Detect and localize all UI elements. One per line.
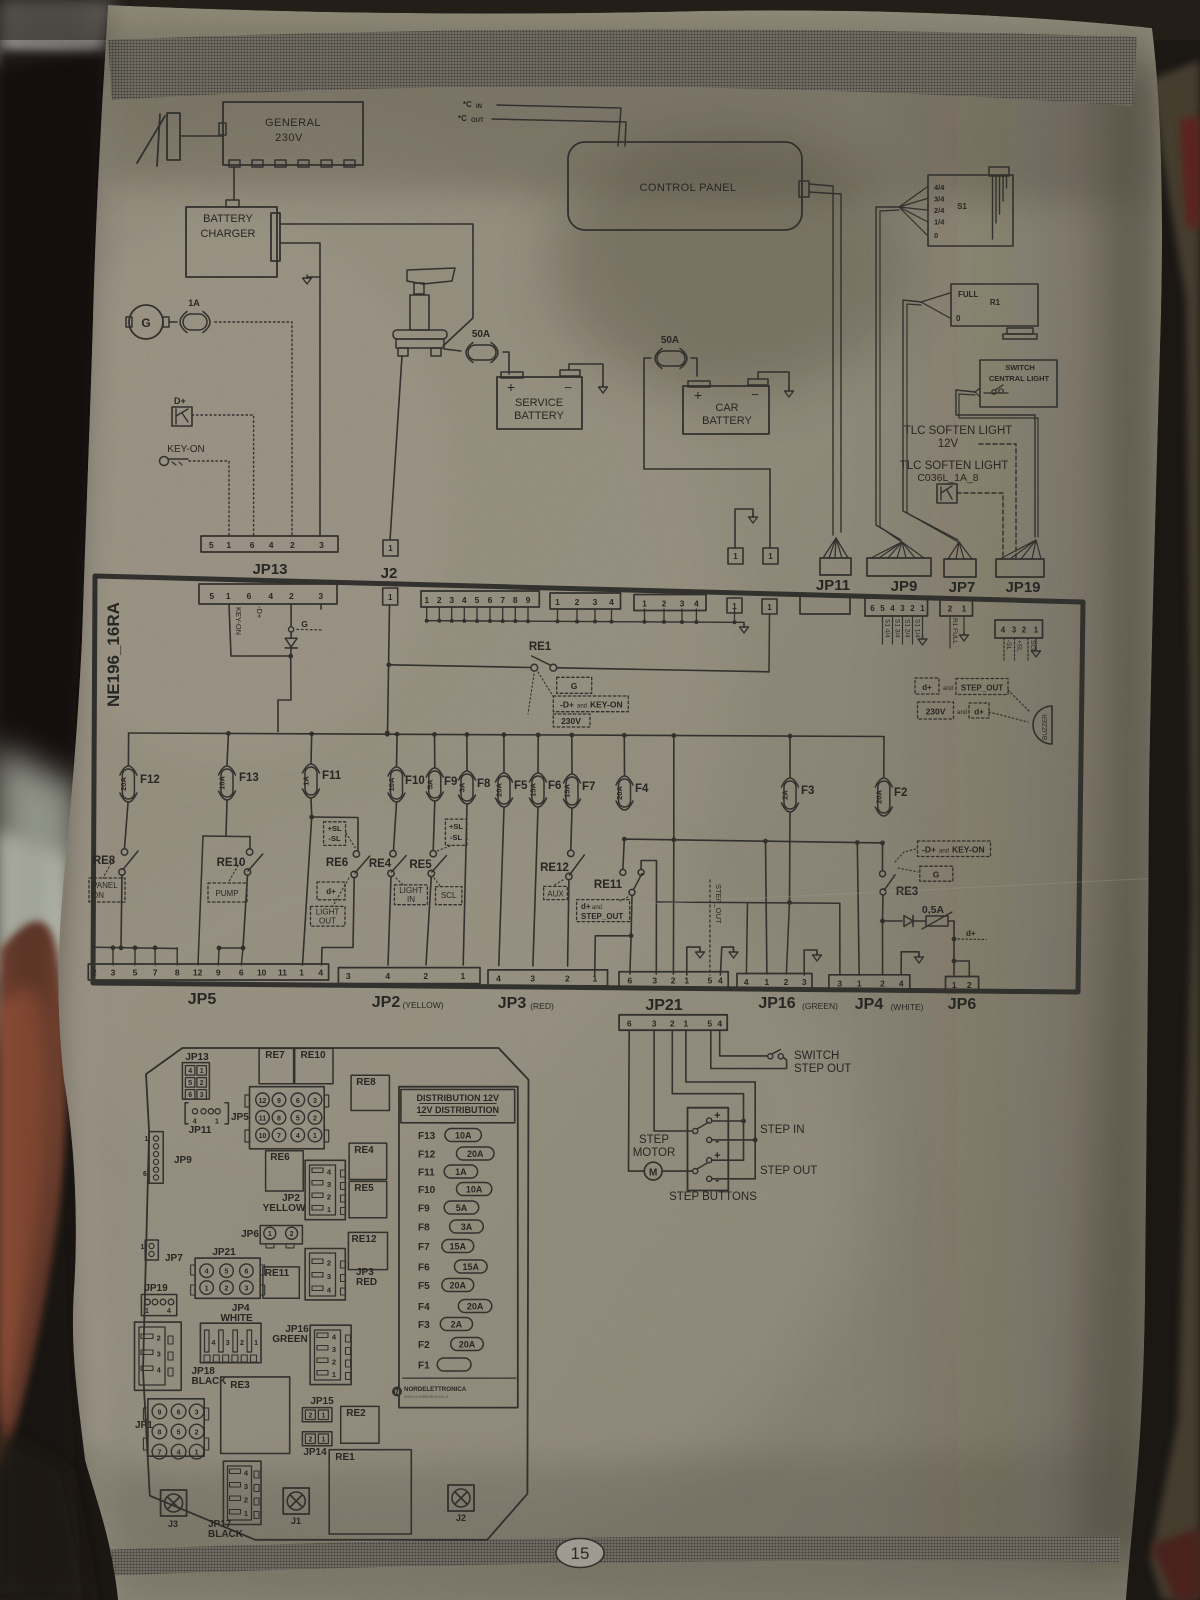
JP5 pin row bottom <box>88 964 328 980</box>
d+ and STEP_OUT dashed labels buzzer <box>915 678 939 694</box>
bus R1 to JP7 <box>903 300 958 540</box>
RE1 wire J2 to J1 <box>389 665 531 668</box>
JP2 pin row bottom <box>338 968 480 984</box>
dark zone top strip <box>110 30 1150 205</box>
JP5 pin bus left <box>94 947 177 948</box>
JP11 connector box <box>820 558 851 575</box>
RE5 output to JP2 pin 2 <box>426 877 431 965</box>
dashed 230V box at RE1 <box>553 714 590 727</box>
dashed +SL -SL box at RE5 <box>445 819 466 845</box>
PCB RE6 <box>266 1151 304 1191</box>
relay RE4 light in <box>394 803 397 850</box>
fan switch central light <box>975 388 980 392</box>
ground car battery <box>758 372 789 390</box>
bus junction dots <box>226 731 231 736</box>
dashed SCL box at RE5 <box>436 887 462 905</box>
PCB JP5 connector <box>250 1087 325 1149</box>
JP19 connector box <box>996 559 1044 577</box>
dotted wire D+ to JP13 pin6 <box>192 415 254 536</box>
dotted wire 1A fuse to JP13 pin2 <box>215 322 292 536</box>
dashed +SL -SL box at RE6 <box>324 822 346 846</box>
F5 wire to JP3 pin 4 <box>499 808 504 966</box>
diode on JP13 pin2 line <box>285 638 297 647</box>
switch central light <box>980 360 1057 407</box>
relay RE11 <box>623 839 624 869</box>
relay RE6 light out <box>310 799 313 815</box>
PCB RE11 <box>263 1267 299 1298</box>
fuse F4 20A <box>623 735 625 775</box>
fan into JP19 <box>1000 540 1036 559</box>
wire JP21-6 to motor <box>629 1030 645 1171</box>
JP6 pin row bottom <box>946 977 979 993</box>
JP13 pin3 stub <box>320 604 322 609</box>
battery charger <box>186 207 277 277</box>
buttons contacts <box>707 1118 712 1123</box>
dashed d+ and STEP_OUT box at RE11 <box>577 900 630 922</box>
relay RE10 pump <box>226 801 227 836</box>
diode to 0,5A <box>883 920 903 922</box>
hand thumb <box>0 921 67 1470</box>
fuse 50A car <box>657 351 685 366</box>
fuse F8 3A <box>466 735 468 770</box>
JP4 pin row bottom <box>829 975 910 991</box>
wire JP16 pin1 from F4 bus <box>766 841 767 974</box>
JP19 pin box inside board <box>995 620 1043 638</box>
fuse F10 10A <box>396 734 399 766</box>
ground JP21 pin4 <box>720 947 733 975</box>
fuse F12 20A <box>127 733 129 765</box>
fuse 1A <box>183 314 207 330</box>
lower-left dark hand shadow <box>0 1430 92 1600</box>
JP3 pin row bottom <box>488 970 608 986</box>
PCB RE5 <box>349 1181 387 1217</box>
top-left grey surface glow <box>0 0 115 65</box>
wire JP13 pin1 keyon <box>229 604 291 656</box>
fan S1 to bus <box>899 187 927 207</box>
relay RE5 scl <box>433 802 435 850</box>
buzzer <box>1033 706 1052 744</box>
dotted wire KEY-ON to JP13 pin1 <box>189 461 229 536</box>
wire main bus to JP21 pin2 <box>673 736 675 840</box>
bottom page shading <box>100 1450 1140 1600</box>
PCB JP17 BLACK <box>223 1461 261 1524</box>
wire motor to buttons <box>662 1170 691 1172</box>
top dark band above page <box>0 0 1200 40</box>
RE12 output to JP3 pin 2 <box>568 880 569 966</box>
fuse F9 5A <box>434 734 436 767</box>
fuse F13 10A <box>227 734 228 766</box>
PCB screw J1 <box>283 1488 309 1514</box>
control panel <box>568 142 802 230</box>
PCB RE1 <box>329 1450 411 1534</box>
step in/out wiring <box>712 1120 744 1122</box>
relay RE8 panel on <box>125 803 129 848</box>
dark blob right-mid <box>550 135 910 395</box>
table separator <box>403 1377 516 1379</box>
fuse F6 15A <box>537 735 539 772</box>
fuse F7 15A <box>571 735 573 773</box>
PCB RE7 <box>259 1048 294 1083</box>
header halftone band <box>108 29 1137 106</box>
wire J2 to RE1 and bus <box>388 605 390 733</box>
JP13 pin row inside board <box>199 584 337 604</box>
relay RE3 <box>882 843 884 871</box>
J2 box above board <box>383 540 398 556</box>
red book edge top right <box>1180 115 1200 230</box>
JP1 pin row inside board <box>421 591 539 607</box>
dashed -D+ and KEY-ON box at RE1 <box>553 696 628 712</box>
fan R1 to bus <box>921 293 950 302</box>
dashed d+ box at RE6 <box>317 882 345 900</box>
harness control panel to JP11 <box>809 184 833 535</box>
JP13 connector above board <box>201 536 338 552</box>
ground bus under JP1 JP17 JP18 J3 <box>427 621 737 623</box>
ground JP21 pin1 <box>687 947 700 975</box>
left window light <box>0 745 76 1045</box>
wire JP13 pin6 d+ node <box>290 604 292 627</box>
wire general to battery charger <box>233 167 235 200</box>
ground charger <box>307 276 320 278</box>
dotted STEP OUT line to JP21 pin5 <box>709 880 711 975</box>
wire JP4 pin3 <box>839 903 841 975</box>
dashed -D+ and KEY-ON box at RE3 <box>918 841 991 857</box>
fuse F3 2A <box>789 736 791 777</box>
wire JP4 pin1 from F4 bus <box>857 843 859 975</box>
wire diode to bus <box>290 648 292 656</box>
fuse F5 20A <box>503 735 505 772</box>
JP7 connector box <box>944 559 976 577</box>
generator G <box>129 305 163 339</box>
J3 box above board with ground <box>728 548 743 564</box>
RE6 output wire <box>322 878 355 966</box>
wire 50A car down to J1 <box>644 358 770 548</box>
dashed LIGHT OUT box at RE6 <box>311 906 346 926</box>
JP21 external connector box <box>619 1015 727 1030</box>
wire JP21-3 to buttons switch1 <box>654 1030 691 1131</box>
page left curled edge highlight <box>61 80 112 1450</box>
JP16 pin row bottom <box>737 973 812 989</box>
dotted links RE1 <box>538 672 553 696</box>
PCB RE3 <box>221 1377 290 1454</box>
PCB screw J2 <box>448 1485 474 1511</box>
wire charger to battery switch <box>280 224 473 346</box>
JP11 pin box inside board <box>800 596 850 614</box>
PCB RE2 <box>341 1406 379 1443</box>
board outline NE196_16RA <box>93 576 1083 992</box>
switch step out <box>720 1030 767 1056</box>
J1 box above board <box>763 548 778 564</box>
distribution table <box>399 1087 518 1408</box>
PCB outline <box>143 1048 529 1540</box>
relay RE12 aux <box>571 809 572 850</box>
PCB JP14 <box>302 1432 332 1446</box>
RE11 output node <box>630 896 633 936</box>
JP7 pin box inside board <box>940 599 973 616</box>
PCB RE8 <box>351 1075 389 1110</box>
PCB screw J3 <box>161 1490 187 1516</box>
PCB RE12 <box>348 1232 387 1269</box>
nordelettronica logo <box>392 1387 402 1397</box>
battery disconnect switch <box>407 268 455 284</box>
PCB RE10 <box>295 1048 333 1083</box>
bright zone left-centre <box>0 120 730 1160</box>
dashed G box at RE3 <box>920 866 953 881</box>
right side page shading <box>1080 60 1160 1550</box>
fan into JP11 <box>823 538 836 558</box>
dashed G box at RE1 <box>557 677 592 693</box>
J3 pin box inside board <box>727 598 742 613</box>
JP17 pin row inside board <box>550 593 621 609</box>
JP9 pin box inside board <box>865 598 928 616</box>
bus switch central light to JP19 <box>956 390 1035 537</box>
wire J1 pin down to RE1 wire <box>768 614 771 672</box>
d+ output node <box>948 921 954 975</box>
page crease line <box>600 878 1160 906</box>
wire F3 down <box>789 813 792 901</box>
JP18 pin row inside board <box>634 595 706 611</box>
PCB JP11 <box>185 1103 228 1124</box>
page number 15 oval <box>556 1539 604 1568</box>
table header <box>401 1089 515 1122</box>
fuse F11 1A <box>310 734 313 763</box>
RE4 output to JP2 pin 4 <box>388 877 391 966</box>
RE10 output bus <box>243 875 248 948</box>
level indicator R1 <box>951 284 1038 326</box>
vignette overlay <box>0 0 106 1600</box>
mains plug <box>137 116 165 163</box>
fan into JP7 <box>948 542 959 559</box>
tank sensor S1 <box>928 175 1013 246</box>
second page sliver right <box>1150 60 1200 1600</box>
footer halftone band <box>100 1536 1120 1576</box>
wire charger to JP13 pin3 with ground tap <box>280 243 320 536</box>
horizontal relay wire y902 <box>657 902 840 903</box>
step buttons box <box>688 1108 729 1191</box>
RE3 output node <box>882 895 885 921</box>
F8 wire to JP2 pin 1 <box>463 805 467 965</box>
RE8 output to JP5 bus <box>121 875 122 947</box>
dark left margin <box>0 50 104 780</box>
JP21 pin row bottom <box>619 972 728 988</box>
box GENERAL 230V <box>223 102 363 165</box>
wire plug to general <box>180 135 223 137</box>
J1 pin box inside board <box>762 599 777 614</box>
ground service battery <box>569 364 603 386</box>
bus S1 to JP9 <box>876 207 901 540</box>
F4 secondary bus <box>624 839 882 843</box>
wire to JP6 pin2 <box>954 961 969 976</box>
wire switch to J2 <box>390 356 402 540</box>
JP9 connector box <box>867 558 931 576</box>
main 12V bus <box>129 733 884 737</box>
F6 wire to JP3 pin 3 <box>533 808 538 966</box>
ground JP4 pin4 <box>901 952 919 975</box>
RE6 output to JP2 pin4... straight F11 branch to pin1 <box>303 817 312 965</box>
ground JP16 pin3 <box>804 950 817 975</box>
fuse 50A service <box>468 345 496 360</box>
J2 pin box inside board <box>383 588 398 605</box>
PCB RE4 <box>349 1143 387 1179</box>
fuse F2 20A <box>883 737 885 778</box>
car battery <box>683 386 769 434</box>
wire 50A to car battery <box>691 358 697 376</box>
fan into JP9 <box>871 542 902 558</box>
service battery <box>497 377 582 429</box>
